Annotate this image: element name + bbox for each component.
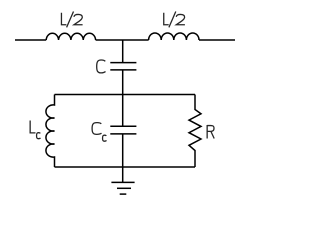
capacitor C bottom plate bbox=[110, 69, 136, 71]
label Lc letter L bbox=[30, 121, 35, 133]
label Cc subscript c bbox=[103, 135, 107, 141]
ground bar 3 bbox=[120, 193, 127, 195]
label R bbox=[207, 125, 214, 139]
label L/2 (left) slash bbox=[67, 12, 74, 28]
capacitor C top plate bbox=[110, 62, 136, 64]
label L/2 (left) digit 2 bbox=[74, 14, 83, 24]
wire center drop from top node to C bbox=[122, 40, 124, 63]
wire bottom rail bbox=[55, 166, 196, 168]
label Cc letter C bbox=[92, 123, 101, 135]
inductor L/2 right (L2) bbox=[149, 33, 199, 40]
capacitor Cc top plate bbox=[110, 125, 136, 127]
capacitor Cc bottom plate bbox=[110, 133, 136, 135]
label L/2 (right) slash bbox=[169, 12, 176, 28]
wire C to tank top node bbox=[122, 70, 124, 126]
label L/2 (left inductor) letter L bbox=[61, 13, 66, 25]
label C bbox=[97, 60, 106, 73]
inductor L/2 left (L1) bbox=[46, 33, 95, 40]
wire top-left segment bbox=[15, 39, 46, 41]
ground bar 1 bbox=[111, 181, 134, 183]
wire top-right segment bbox=[199, 39, 235, 41]
wire between L1 and L2 bbox=[96, 39, 149, 41]
wire tank top rail bbox=[55, 94, 196, 96]
wire ground drop bbox=[122, 167, 124, 182]
wire Cc to bottom rail bbox=[122, 134, 124, 167]
resistor R (right branch) bbox=[189, 95, 201, 168]
ground bar 2 bbox=[117, 187, 131, 189]
inductor Lc (left branch, 4 loops) bbox=[46, 95, 55, 168]
label L/2 (right inductor) letter L bbox=[164, 13, 169, 25]
label Lc subscript c bbox=[37, 133, 41, 139]
label L/2 (right) digit 2 bbox=[176, 14, 185, 24]
